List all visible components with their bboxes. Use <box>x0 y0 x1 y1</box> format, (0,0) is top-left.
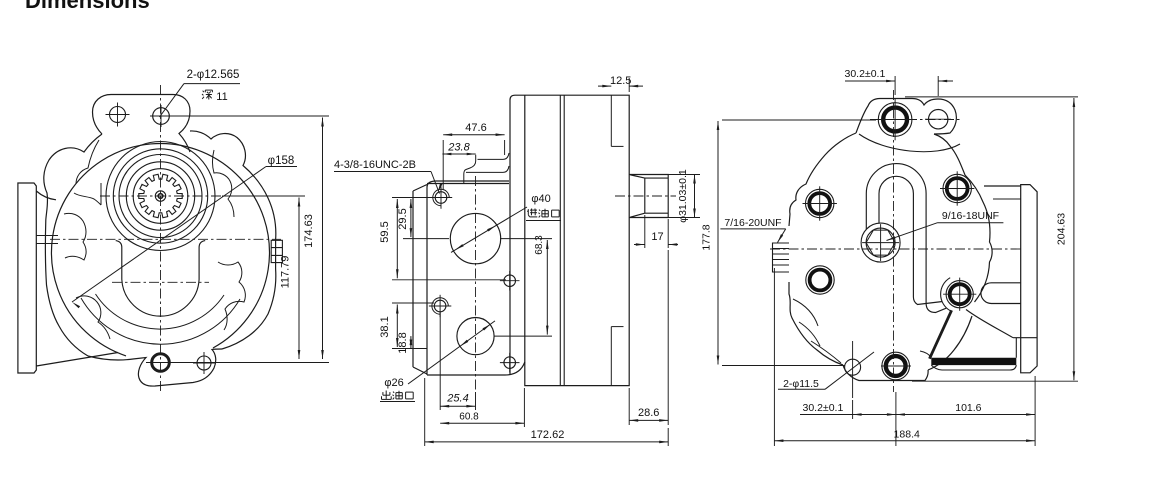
left view: vertical centerline <box>160 85 162 393</box>
svg-text:φ158: φ158 <box>268 155 295 167</box>
left view: bearing ring r34 <box>126 162 194 230</box>
svg-text:204.63: 204.63 <box>1056 213 1068 245</box>
left view: bottom mounting lug <box>88 349 222 386</box>
right view: bolt hole mid-left <box>803 186 837 220</box>
right view: bottom boss outline <box>843 365 928 381</box>
dimension 101.6 <box>896 376 1035 446</box>
right view: section rib (bold diagonal) <box>930 310 952 358</box>
label 4-3/8-16UNC-2B <box>334 159 442 194</box>
left view: bearing ring r47 <box>113 149 207 243</box>
label 2-ph11.5 <box>778 352 874 390</box>
left view: side plug boss <box>271 240 282 262</box>
dimension 38.1 <box>379 303 434 349</box>
right view: hex plug boss 7/16-20UNF <box>773 243 790 272</box>
svg-text:11: 11 <box>216 91 227 103</box>
left view: bearing ring r27 <box>133 169 188 224</box>
left view: horizontal centerline (ports) <box>50 238 281 240</box>
dimension 12.5 <box>598 75 643 92</box>
right view: bolt hole lower-left <box>806 266 834 294</box>
right view: lower-right bolt boss arc <box>941 278 951 311</box>
left view: ph158 pilot circle <box>51 143 269 355</box>
dimension 177.8 <box>701 120 877 366</box>
right view: casting step contours lower-left <box>793 299 841 363</box>
svg-text:23.8: 23.8 <box>447 142 470 154</box>
dimension 47.6 <box>443 122 504 190</box>
right view: bottom bolt hole with seal ring <box>881 352 911 380</box>
left view: casting arc inner <box>96 294 225 329</box>
right view: bolt hole mid-right <box>940 171 974 205</box>
right view: flange upper arm <box>984 186 1021 199</box>
svg-text:47.6: 47.6 <box>465 122 486 134</box>
left view: bottom dowel hole (bold) <box>152 354 170 372</box>
left view: bearing ring r41 <box>119 155 202 238</box>
left view: U-shaped driven gear bore <box>116 241 206 317</box>
left view: top dowel hole 2-ph12.565 <box>150 105 172 127</box>
left view: casting pocket left <box>64 213 86 260</box>
right view: lube groove arch outer <box>866 164 946 313</box>
left view: gear boss ring r54 <box>106 142 215 251</box>
svg-text:174.63: 174.63 <box>303 214 315 248</box>
right view: top holes centerline <box>870 119 960 121</box>
right view: casting body outline <box>789 133 992 370</box>
middle view: mounting plate outline <box>413 181 525 375</box>
svg-text:φ31.03±0.1: φ31.03±0.1 <box>677 169 689 223</box>
svg-text:60.8: 60.8 <box>459 412 479 423</box>
dimension 30.2 top <box>845 68 953 96</box>
middle view: inlet bore ph40 <box>450 213 500 263</box>
left view: casting pocket lower-right <box>218 262 245 330</box>
svg-text:30.2±0.1: 30.2±0.1 <box>845 68 886 80</box>
middle view: shaft centerline <box>615 195 676 197</box>
right view: bolt hole lower-right <box>943 278 976 311</box>
right view: center port boss circle <box>861 223 900 262</box>
right view: lube groove arch inner <box>879 176 943 304</box>
label depth 11 <box>202 90 228 103</box>
svg-text:17: 17 <box>651 231 663 243</box>
svg-text:172.62: 172.62 <box>531 429 565 441</box>
middle view: mounting hole bottom-right <box>500 353 520 373</box>
right view: top slot hole <box>925 110 951 129</box>
dimension 17 <box>634 215 678 248</box>
middle view: gear housing outline <box>510 95 629 385</box>
left view: bottom bolt hole <box>193 352 215 374</box>
svg-text:4-3/8-16UNC-2B: 4-3/8-16UNC-2B <box>334 159 416 171</box>
left view: spline hub circles <box>155 191 165 201</box>
svg-text:25.4: 25.4 <box>446 393 468 405</box>
svg-text:59.5: 59.5 <box>379 221 391 242</box>
middle view: internal step top <box>611 95 623 146</box>
dimension 60.8 <box>440 388 524 427</box>
right view: horizontal centerline <box>770 248 1022 250</box>
label ph26 outlet port <box>380 321 495 402</box>
left view: suction flange <box>18 183 118 373</box>
title text 'Dimensions' (cut off at top) <box>25 0 150 13</box>
right view: bottom support bar (solid) <box>931 358 1016 365</box>
right view: lug saddle line <box>859 134 960 152</box>
left view: outer casting silhouette <box>44 131 276 356</box>
right view: outlet port slot <box>981 283 1021 304</box>
right view: lower arm outline <box>920 310 1037 371</box>
middle view: rear drive extension <box>629 175 668 218</box>
dimension 174.63 <box>146 116 329 363</box>
middle view: mounting hole mid-right <box>500 271 520 291</box>
right view: top lug <box>856 99 956 135</box>
middle view: outlet bore ph26 <box>457 318 494 355</box>
svg-text:9/16-18UNF: 9/16-18UNF <box>942 210 999 222</box>
right view: vertical centerline <box>893 90 895 392</box>
label 9/16-18UNF <box>887 210 1004 241</box>
left view: top lug hole (plain) <box>106 103 130 127</box>
dimension 117.79 <box>222 196 305 359</box>
middle view: mounting hole top-left 3/8-16UNC <box>430 186 452 208</box>
dimension 188.4 <box>774 268 1035 446</box>
svg-text:12.5: 12.5 <box>610 75 631 87</box>
middle view: plate vertical centerline <box>475 176 477 392</box>
left view: driven bore centerline <box>112 281 209 283</box>
left view: top mounting lug <box>93 95 191 153</box>
dimension 59.5 <box>379 198 506 280</box>
dimension 18.8 <box>397 332 412 353</box>
svg-text:φ40: φ40 <box>531 193 550 205</box>
svg-text:29.5: 29.5 <box>397 208 409 229</box>
svg-text:38.1: 38.1 <box>379 316 391 337</box>
right view: outlet flange plate <box>1021 185 1037 373</box>
dimension ph31.03 <box>668 169 700 223</box>
dimension 30.2 bottom <box>780 392 896 446</box>
dimension 204.63 <box>905 97 1078 381</box>
svg-text:28.6: 28.6 <box>638 407 659 419</box>
label ph158 <box>72 155 297 308</box>
dimension 172.62 <box>425 378 669 446</box>
middle view: internal step bottom <box>611 327 623 386</box>
left view: casting pocket upper-left <box>74 140 101 205</box>
label 2-ph12.565 <box>160 69 241 117</box>
label 7/16-20UNF <box>720 217 785 243</box>
left view: casting arc outer <box>81 298 240 344</box>
svg-text:30.2±0.1: 30.2±0.1 <box>803 402 844 414</box>
right view: port hex 9/16-18UNF <box>862 224 899 261</box>
middle view: plate top step <box>464 153 509 184</box>
svg-text:7/16-20UNF: 7/16-20UNF <box>724 217 781 229</box>
left view: flange port lines <box>36 236 58 244</box>
label ph40 inlet port <box>451 193 561 252</box>
svg-text:68.3: 68.3 <box>534 235 545 255</box>
svg-text:2-φ11.5: 2-φ11.5 <box>783 378 819 390</box>
dimension 25.4 <box>440 312 475 410</box>
middle view: housing-cover joint lines <box>560 95 564 385</box>
left view: casting pocket lower-left <box>76 296 110 339</box>
svg-text:177.8: 177.8 <box>701 224 713 250</box>
middle view: mounting hole mid-left 3/8-16UNC <box>429 295 451 317</box>
svg-text:188.4: 188.4 <box>894 429 920 441</box>
right view: dowel hole 2-ph11.5 <box>845 341 861 398</box>
right view: top bolt hole with seal ring <box>874 99 916 141</box>
svg-text:101.6: 101.6 <box>955 402 981 414</box>
left view: drive shaft spline gear <box>139 174 182 217</box>
dimension 23.8 <box>442 142 475 156</box>
svg-text:φ26: φ26 <box>384 377 403 389</box>
svg-text:Dimensions: Dimensions <box>25 0 150 13</box>
svg-text:18.8: 18.8 <box>397 332 409 353</box>
svg-text:2-φ12.565: 2-φ12.565 <box>187 69 240 81</box>
dimension 28.6 <box>629 250 668 425</box>
dimension 29.5 <box>397 199 449 239</box>
left view: gear horizontal centerline <box>100 195 222 197</box>
dimension 68.3 <box>494 235 552 336</box>
left view: casting pocket upper-right <box>213 150 235 217</box>
svg-text:117.79: 117.79 <box>280 256 292 289</box>
